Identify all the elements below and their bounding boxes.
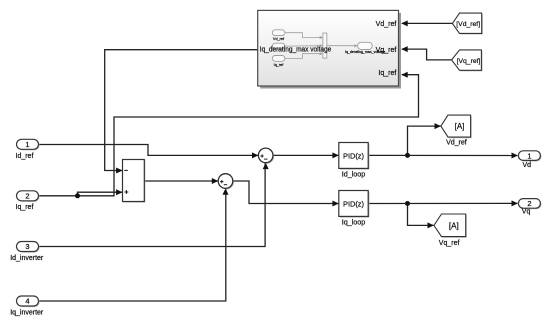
- svg-text:Id_inverter: Id_inverter: [10, 255, 44, 262]
- svg-text:[Vd_ref]: [Vd_ref]: [456, 21, 480, 28]
- svg-text:2: 2: [25, 192, 29, 201]
- svg-text:1: 1: [25, 140, 29, 149]
- svg-text:3: 3: [25, 242, 29, 251]
- svg-text:Id_loop: Id_loop: [342, 170, 366, 179]
- svg-text:PID(z): PID(z): [343, 151, 364, 160]
- svg-text:Id_ref: Id_ref: [16, 153, 34, 160]
- svg-text:Iq_ref: Iq_ref: [16, 204, 34, 211]
- svg-text:1: 1: [527, 151, 531, 160]
- svg-text:PID(z): PID(z): [343, 199, 364, 208]
- svg-text:Vd: Vd: [523, 162, 532, 169]
- svg-text:Iq_ref: Iq_ref: [378, 70, 396, 77]
- svg-text:Vq: Vq: [522, 208, 531, 215]
- svg-text:Iq_derating_max voltage: Iq_derating_max voltage: [260, 44, 332, 53]
- svg-text:Vq_ref: Vq_ref: [376, 47, 397, 54]
- svg-text:Vd_ref: Vd_ref: [273, 37, 285, 41]
- svg-text:Vd_ref: Vd_ref: [376, 21, 397, 28]
- svg-text:Iq_inverter: Iq_inverter: [10, 310, 44, 317]
- svg-text:[A]: [A]: [449, 221, 459, 230]
- svg-text:2: 2: [527, 199, 531, 208]
- svg-text:Vd_ref: Vd_ref: [446, 140, 467, 147]
- svg-text:Vq_ref: Vq_ref: [439, 240, 460, 247]
- svg-text:4: 4: [25, 297, 29, 306]
- svg-text:Iq_ref: Iq_ref: [274, 63, 285, 67]
- svg-text:[A]: [A]: [455, 122, 465, 131]
- svg-text:Iq_loop: Iq_loop: [342, 218, 366, 227]
- svg-text:[Vq_ref]: [Vq_ref]: [457, 58, 481, 65]
